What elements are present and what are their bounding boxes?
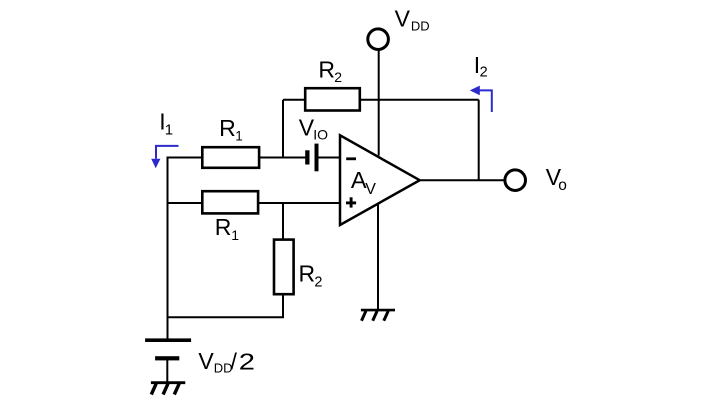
wire: VDD terminal to op-amp top xyxy=(378,51,380,156)
battery VIO short plate xyxy=(305,150,309,164)
wire: op-amp bottom to ground xyxy=(377,202,379,310)
resistor R2 (vertical, to ground rail) xyxy=(274,240,294,295)
op-amp plus sign xyxy=(346,201,356,204)
wire: inverting input left segment xyxy=(167,157,306,159)
resistor R1 (upper) xyxy=(202,147,259,168)
svg-text:2: 2 xyxy=(334,69,342,85)
wire: vertical through R2 to ground rail xyxy=(282,203,284,317)
svg-text:2: 2 xyxy=(480,65,488,81)
resistor R1 (lower) xyxy=(202,191,258,213)
wire: battery VDD/2 to ground xyxy=(166,360,168,383)
svg-text:/: / xyxy=(231,348,238,374)
wire: feedback tap vertical down to inverting input xyxy=(282,100,284,158)
wire: inverting input right segment (battery to op-amp) xyxy=(318,157,341,159)
resistor R2 (feedback, horizontal) xyxy=(305,88,360,110)
svg-text:R: R xyxy=(299,260,316,286)
svg-text:1: 1 xyxy=(165,122,173,139)
svg-text:2: 2 xyxy=(239,348,255,374)
ground (below op-amp) xyxy=(361,310,395,321)
wire: left vertical rail xyxy=(167,157,169,340)
svg-text:R: R xyxy=(318,57,335,83)
op-amp minus sign xyxy=(346,157,356,160)
battery VDD/2 short plate xyxy=(155,356,179,360)
svg-text:1: 1 xyxy=(231,227,239,243)
VDD terminal circle xyxy=(368,29,389,50)
wire: op-amp output xyxy=(420,179,505,181)
wire: feedback top horizontal (through R2) xyxy=(283,99,479,101)
svg-text:V: V xyxy=(365,181,376,198)
Vo terminal circle xyxy=(505,170,526,191)
op-amp U1 xyxy=(340,135,420,225)
svg-text:R: R xyxy=(219,115,236,141)
svg-text:DD: DD xyxy=(411,19,430,34)
wire: bottom horizontal xyxy=(167,316,285,318)
svg-text:R: R xyxy=(215,214,232,240)
svg-text:2: 2 xyxy=(314,275,322,291)
wire: right feedback vertical to output xyxy=(478,100,480,180)
wire: non-inverting input (through lower R1) xyxy=(167,202,342,204)
ground (below VDD/2 battery) xyxy=(151,383,185,395)
svg-text:IO: IO xyxy=(313,126,328,142)
current arrow I1 xyxy=(151,146,178,168)
svg-text:o: o xyxy=(558,177,567,194)
battery VIO long plate xyxy=(315,144,319,172)
svg-text:1: 1 xyxy=(235,129,243,144)
svg-text:V: V xyxy=(198,348,214,374)
battery VDD/2 long plate xyxy=(145,338,191,342)
svg-text:V: V xyxy=(395,5,411,31)
current arrow I2 xyxy=(470,86,492,112)
